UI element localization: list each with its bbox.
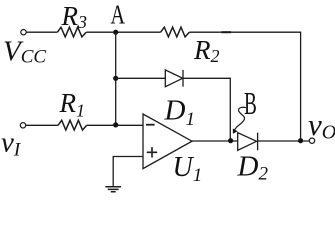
- svg-text:B: B: [244, 85, 257, 121]
- diode D1: [165, 70, 182, 87]
- wire noninverting input to ground: [113, 157, 143, 187]
- terminal VCC: [21, 30, 26, 35]
- node B dot: [228, 138, 233, 143]
- svg-text:vI: vI: [1, 127, 22, 161]
- wire D2 to output terminal: [258, 140, 310, 142]
- svg-text:A: A: [111, 0, 126, 30]
- svg-text:D1: D1: [164, 94, 195, 130]
- minus sign: [146, 124, 155, 126]
- svg-text:R1: R1: [59, 88, 86, 121]
- wire overlap dark segment on top rail: [222, 31, 232, 33]
- op-amp U1: [143, 114, 192, 169]
- wire op-amp output to node B: [192, 140, 238, 142]
- ground: [105, 187, 121, 192]
- wire R1 to inverting input: [87, 124, 143, 126]
- svg-text:U1: U1: [173, 152, 203, 186]
- junction dot inverting node: [113, 122, 118, 127]
- wire R2 to right rail down to output node: [189, 32, 300, 140]
- terminal vI: [20, 123, 25, 128]
- terminal vO: [309, 138, 314, 143]
- wire node A down to inverting node: [115, 32, 117, 125]
- diode D2: [238, 133, 257, 151]
- output node dot: [298, 138, 303, 143]
- svg-text:vO: vO: [308, 107, 335, 144]
- resistor R2: [161, 27, 190, 37]
- wire R3 to node A to R2: [86, 31, 160, 33]
- wire D1 cathode to corner down to node B: [183, 78, 230, 140]
- svg-text:VCC: VCC: [3, 36, 46, 68]
- resistor R3: [57, 27, 86, 37]
- plus sign: [147, 147, 157, 157]
- wire vI to R1: [26, 124, 58, 126]
- wire VCC to R3: [26, 31, 57, 33]
- junction dot D1 branch: [113, 76, 118, 81]
- wire to D1 anode: [116, 77, 166, 79]
- resistor R1: [58, 120, 87, 130]
- svg-text:R2: R2: [193, 35, 220, 66]
- B leader squiggle arrow: [234, 107, 246, 131]
- node A: [113, 30, 118, 35]
- svg-text:R3: R3: [61, 1, 88, 32]
- svg-text:D2: D2: [237, 150, 269, 184]
